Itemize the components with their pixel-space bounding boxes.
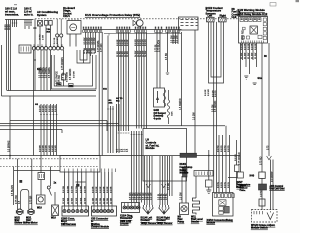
connector X30 tick 1 [39, 174, 41, 178]
svg-text:0.5 BR: 0.5 BR [252, 43, 254, 50]
motor M2/1 circle [28, 209, 34, 215]
svg-text:0.5 BL: 0.5 BL [218, 181, 220, 188]
wire: battery drop 2 [110, 106, 112, 153]
MAS pin box 1 [240, 18, 243, 22]
terminal tick v2-1 [24, 22, 26, 24]
connector strip pin box 12 [124, 30, 126, 33]
relay K1 pin 3 [74, 19, 76, 21]
svg-text:0.75 RD: 0.75 RD [101, 43, 103, 52]
MAS right strip cell 3 [263, 27, 266, 30]
connector X26/3 outline [62, 206, 89, 216]
wire: blower feed 2 [31, 159, 33, 210]
connector X35 pin 3 stub [100, 206, 102, 209]
LH feed tick 5 [128, 132, 130, 134]
band crossing tick 5 [53, 114, 55, 116]
svg-text:K40: K40 [250, 175, 255, 178]
connector X35 pin 5 dot [108, 210, 109, 211]
wire: strip drop c4 [143, 32, 145, 128]
wire: N16 output drop [194, 30, 196, 153]
svg-text:0.75 BL/GN: 0.75 BL/GN [159, 40, 161, 52]
module box pin tick r2 [93, 169, 95, 173]
connector X35 pin 6 dot [111, 210, 112, 211]
X4/10 internal cell 2 [224, 206, 229, 213]
X4/10 pin box 5 [228, 194, 231, 198]
wire: MAS pin drop long x262 [261, 43, 263, 172]
wire: K1 load path upper [63, 50, 65, 74]
bus connector bar X27 [180, 153, 197, 157]
resistor R16 body [62, 74, 66, 80]
MAS right strip cell 2 [263, 23, 266, 26]
band crossing tick 3 [46, 114, 48, 116]
connector X11 pin 3 stub [131, 203, 133, 206]
wire: sensor loop outer [209, 22, 224, 83]
ground sym e1 bar1 [166, 72, 169, 74]
svg-text:W10: W10 [37, 208, 42, 210]
wire: battery drop 1 [107, 36, 109, 154]
svg-text:0.5 SW/BL: 0.5 SW/BL [40, 66, 42, 78]
connector X26/3 pin 5 stub [81, 206, 83, 209]
fuel pump M3 housing [180, 203, 189, 215]
wire: band crossing drop 2 [43, 104, 45, 156]
connector strip pin cap 4 [90, 27, 91, 29]
band crossing tick 6 [56, 114, 58, 116]
plug B11/4 right tip [163, 212, 166, 215]
connector circle row pin 6 [52, 47, 55, 50]
connector X26/3 pin 1 dot [64, 210, 65, 211]
plug B11/4 left funnel [143, 208, 154, 214]
wire: long drop to node w102 [101, 32, 103, 156]
wire: X4/10 feed 3 [225, 135, 227, 193]
module box pin tick 5 [81, 169, 83, 173]
octane switch V plug [267, 213, 274, 220]
wire: band crossing drop 4 [49, 104, 51, 156]
svg-text:0.75 BL: 0.75 BL [156, 43, 158, 52]
wire: S31 to connector row [39, 26, 41, 47]
svg-text:0.5 SW: 0.5 SW [67, 186, 69, 193]
MAS right strip cell 5 [263, 36, 266, 39]
wire: dashed aux 2 [0, 166, 98, 168]
MAS right strip cell 1 [263, 18, 266, 21]
svg-text:0.5 RD: 0.5 RD [215, 90, 217, 97]
plug B11/4 right pin tick 4 [168, 205, 170, 208]
relay K1 pin 2 [71, 19, 73, 21]
wire: LH out B4 [167, 156, 169, 205]
connector X35 pin 2 stub [97, 206, 99, 209]
wire: LH out B2 [162, 156, 164, 205]
connector X35 pin 5 stub [107, 206, 109, 209]
wire: small U centre drop [83, 50, 85, 63]
aux fan relay body [37, 195, 46, 204]
wire: MAS pin drop 4 [252, 43, 254, 60]
svg-text:0.5 RD: 0.5 RD [228, 145, 230, 152]
svg-text:W11/3 Octane Adjust.Module Sw: W11/3 Octane Adjust.Module Switch [251, 224, 276, 230]
connector block X26 tick 1 [20, 47, 22, 52]
connector strip pin box 15 [135, 30, 137, 33]
connector X35 pin 2 dot [97, 210, 98, 211]
terminal tick 1 [12, 22, 14, 24]
wire: K1 pin 87 drop [75, 34, 77, 47]
svg-text:0.5 GN: 0.5 GN [212, 104, 214, 112]
connector X26/3 pin 3 [72, 210, 75, 213]
note: page ref mark [270, 3, 276, 7]
connector bar X27b tick 1 [195, 172, 197, 176]
relay K1 outline [67, 21, 81, 35]
connector strip pin cap 12 [124, 27, 125, 29]
wire: MAS pin drop 2 [245, 43, 247, 67]
svg-text:0.5 BR/WS: 0.5 BR/WS [9, 140, 11, 152]
connector X11 pin 5 [137, 206, 140, 209]
wire: blower feed 1 [17, 159, 19, 210]
plug B11/4 left inner V [146, 208, 151, 213]
module box pin tick 4 [76, 169, 78, 173]
connector strip pin cap 17 [140, 27, 141, 29]
connector strip pin box 5 [93, 30, 95, 33]
relay module N16 contact row y22.5 [181, 22, 198, 24]
connector circle row pin 4 [44, 47, 47, 50]
connector strip pin box 24 [168, 30, 170, 33]
svg-text:0.5 GN: 0.5 GN [40, 105, 42, 112]
plug B11/4 right pin tick 3 [165, 205, 167, 208]
module box pin tick 3 [72, 169, 74, 173]
octane switch pin 4 [261, 211, 263, 214]
connector strip pin box 25 [171, 30, 173, 33]
connector X35 pin 4 dot [104, 210, 105, 211]
relay K1 coil circle [70, 24, 77, 31]
wire: top-left feed bus [5, 19, 34, 21]
MAS internal relay box [250, 26, 257, 34]
X4/10 pin box 3 [221, 194, 224, 198]
wire: LH feed drop 5 [141, 131, 143, 203]
fuel pump M3 circle [181, 206, 187, 212]
wire: dashed A/C enclosure top rail [35, 18, 239, 20]
LH feed tick 3 [123, 132, 125, 134]
connector X11 pin 2 stub [127, 203, 129, 206]
svg-text:G3/2O2 Sensor(heated)4-pole: G3/2O2 Sensor(heated)4-pole [154, 109, 167, 120]
wire: X4/10 feed 1 [218, 135, 220, 193]
svg-text:0.5 BR: 0.5 BR [127, 39, 129, 46]
motor M2/1 side tick L [27, 210, 29, 214]
fuel pump M3 X [182, 207, 186, 211]
connector block X26 tick 3 [25, 47, 27, 52]
connector bar X27b tick 6 [210, 172, 212, 176]
plug B11/4 left tip [147, 212, 150, 215]
svg-text:0.5 GE/SW: 0.5 GE/SW [272, 172, 274, 182]
wire: drop 3 from top-left bus to line F1 [10, 20, 12, 91]
X4/10 internal relay [219, 200, 226, 206]
svg-text:On-BoardDiagn.SocketX11/4: On-BoardDiagn.SocketX11/4 [63, 6, 75, 18]
connector circle row stub 2 [37, 44, 39, 46]
wire: LH out A1 [144, 156, 146, 205]
svg-text:0.5 RD: 0.5 RD [221, 145, 223, 152]
fuse F34 element [261, 199, 263, 206]
connector X26/3 pin 1 [63, 210, 66, 213]
wire: LH feed drop 1 [131, 131, 133, 203]
connector X26/3 pin 2 dot [68, 210, 69, 211]
connector strip pin cap 24 [168, 27, 169, 29]
wire: bus band line 3 [0, 125, 225, 127]
svg-text:31 SW: 31 SW [252, 53, 254, 59]
MAS pin num 1 [241, 18, 243, 19]
connector X35 pin 3 dot [101, 210, 102, 211]
svg-text:W11Fuel LevelSender: W11Fuel LevelSender [191, 216, 203, 224]
wire: drop 1 from top-left bus to line F1 [6, 20, 8, 91]
wire: LH out A3 [149, 156, 151, 205]
svg-text:12 GN: 12 GN [111, 197, 113, 204]
svg-text:2x: 2x [54, 182, 57, 185]
svg-text:0.75 RD: 0.75 RD [261, 156, 263, 165]
connector strip pin cap 26 [173, 27, 174, 29]
svg-text:0.5 GN: 0.5 GN [235, 154, 237, 161]
MAS interior mark 4 [258, 35, 262, 38]
connector X11 pin 1 [123, 206, 126, 209]
fuse TSB body [69, 84, 74, 87]
plug B11/4 left pin tick 1 [143, 205, 145, 208]
MAS pin num 2 [245, 18, 247, 19]
MAS bottom pin 8 [256, 41, 258, 44]
svg-text:4 SW: 4 SW [42, 35, 44, 40]
relay K1 pin 4 [77, 19, 79, 21]
connector X11 pin 1 dot [124, 207, 125, 208]
connector circle row pin 1 [32, 47, 35, 50]
svg-text:0.5 SW/BL: 0.5 SW/BL [46, 66, 48, 78]
wire: short drop 3 from top-left bus [16, 20, 18, 28]
MAS pin num 3 [250, 18, 252, 19]
relay module N16 contact row y25.5 [181, 25, 198, 27]
module box pin tick r5 [104, 169, 106, 173]
svg-text:0.5 BL/WS: 0.5 BL/WS [12, 185, 14, 196]
wire: box2 feed 1 [93, 172, 95, 206]
svg-text:0.5 BR: 0.5 BR [111, 186, 113, 193]
wire: OVP strip drop a3 [90, 32, 92, 56]
connector strip pin box 10 [119, 30, 121, 33]
MAS bottom pin 1 [241, 41, 243, 44]
svg-text:B11/4 RightCoolantTemp. Sensor: B11/4 RightCoolantTemp. Sensor [157, 217, 173, 225]
octane switch R17 dashed box [252, 210, 278, 223]
plug B11/4 left pin tick 3 [149, 205, 151, 208]
wire: suppressor lower stub [168, 118, 170, 124]
wire: long drop to node w99 [98, 32, 100, 156]
svg-text:0.5 BR: 0.5 BR [241, 43, 243, 50]
svg-text:11 WS: 11 WS [76, 197, 78, 204]
O2 sensor heater element [157, 91, 159, 103]
wire: box2 feed 2 [97, 172, 99, 206]
connector X26/3 pin 2 [67, 210, 70, 213]
svg-text:X35 ConnectortoIgnitionControl: X35 ConnectortoIgnitionControl Module [91, 218, 110, 229]
wire: B7 drop [45, 25, 47, 46]
connector strip pin cap 15 [135, 27, 136, 29]
connector strip pin box 9 [116, 30, 118, 33]
connector W5 hatch [259, 184, 267, 190]
connector X35 pin 3 [100, 210, 103, 213]
connector X26/3 pin 3 dot [72, 210, 73, 211]
motor M2/2 circle [17, 209, 23, 215]
connector strip pin cap 23 [166, 27, 167, 29]
wire: bus F2 [2, 95, 97, 97]
relay module N16 outline [179, 17, 199, 30]
relay module N16 contact row y19.5 [181, 19, 198, 21]
wire: bus band line 4 corner [61, 130, 63, 134]
wire: W5 lower 2 [272, 160, 274, 211]
octane switch pin 3 [259, 211, 261, 214]
wire: big loop outer [52, 55, 97, 89]
svg-text:TD: TD [120, 98, 123, 100]
svg-text:N16/1Fuel PumpRelayModule: N16/1Fuel PumpRelayModule [180, 163, 193, 175]
wire: drop 3 from variant-2 bus [28, 20, 30, 30]
connector bar X27b [194, 171, 213, 177]
connector strip pin box 13 [126, 30, 128, 33]
connector strip pin box 18 [142, 30, 144, 33]
svg-text:0.5 SW/BL: 0.5 SW/BL [43, 66, 45, 78]
note: asterisk marks [14, 4, 17, 5]
plug B11/4 right inner V [162, 208, 167, 213]
plug arrow x269 [267, 156, 272, 160]
aux fan relay circle [38, 197, 43, 202]
motor M2/1 core [29, 211, 33, 213]
wire: box1 feed 2 [68, 172, 70, 206]
LH feed tick2 4 [138, 134, 140, 136]
connector strip pin box 1 [83, 30, 85, 33]
connector strip pin cap 5 [93, 27, 94, 29]
wire: dashed aux 1 [0, 158, 98, 160]
connector circle row pin 2 [36, 47, 39, 50]
connector block X26 tick 4 [28, 47, 30, 52]
svg-text:Right: Right [220, 14, 227, 17]
sensor B11/2 right housing [219, 17, 227, 22]
junction dot on K1a feed [34, 59, 36, 61]
connector strip pin box 11 [121, 30, 123, 33]
svg-text:11 WS: 11 WS [80, 197, 82, 204]
module box pin tick 1 [64, 169, 66, 173]
wire: diode block drop [208, 187, 210, 190]
plug B11/4 left pin tick 2 [146, 205, 148, 208]
relay K1 coil bar [71, 26, 75, 28]
X4/10 internal relay mark [220, 201, 226, 205]
horn symbol H3 cone [133, 20, 137, 25]
wire: band crossing drop 5 [53, 104, 55, 156]
octane switch pin 2 [256, 211, 258, 214]
connector strip pin box 14 [129, 30, 131, 33]
wire: circle-row drop 3 [46, 50, 48, 91]
module box pin tick r8 [115, 169, 117, 173]
connector strip pin box 19 [145, 30, 147, 33]
connector strip pin cap 20 [155, 27, 156, 29]
octane pin extra [269, 211, 271, 213]
connector circle row pin 5 [49, 47, 52, 50]
wire: motor link loop [21, 190, 29, 210]
sensor B8 body [49, 21, 52, 26]
connector X35 pin 1 [93, 210, 96, 213]
module box pin tick r6 [107, 169, 109, 173]
wire: LH out A2 [146, 156, 148, 205]
connector X11 pin 4 stub [134, 203, 136, 206]
connector strip pin cap 19 [145, 27, 146, 29]
connector X26/3 pin 2 stub [68, 206, 70, 209]
wire: sender feed [195, 176, 197, 198]
switch S31 housing [38, 21, 43, 27]
connector X11 pin 4 dot [134, 207, 135, 208]
svg-text:0.5 BL: 0.5 BL [225, 181, 227, 188]
connector strip pin cap 3 [88, 27, 89, 29]
wire: bus band line 3 corner drop [225, 126, 227, 135]
battery drop tick 1 [107, 108, 109, 110]
MAS internal relay X [251, 27, 257, 33]
svg-text:0.5 BL: 0.5 BL [166, 193, 168, 200]
svg-text:0.75: 0.75 [268, 145, 270, 150]
wire: left vertical v13 [13, 167, 15, 206]
connector strip pin cap 28 [178, 27, 179, 29]
connector strip pin box 4 [90, 30, 92, 33]
wire: circle-row drop 1 [40, 50, 42, 91]
module box pin tick r1 [90, 169, 92, 173]
connector strip pin box 17 [140, 30, 142, 33]
connector strip pin box 21 [158, 30, 160, 33]
wire: X30 upper [40, 156, 42, 173]
connector strip pin cap 9 [116, 27, 117, 29]
connector X30 tick 3 [42, 174, 44, 178]
wire: OVP strip drop a4 [92, 32, 94, 50]
note: page corner mark [296, 0, 300, 2]
wire: X30 lower [40, 180, 42, 196]
MAS module K1/2 outline [239, 17, 268, 44]
svg-text:31 SW: 31 SW [241, 53, 243, 59]
wire: strip drop c3 [141, 32, 143, 128]
module box pin tick 2 [68, 169, 70, 173]
svg-text:LHControlsot. Fuel Inj.Module: LHControlsot. Fuel Inj.Module [146, 138, 160, 151]
svg-text:0.5 BL: 0.5 BL [228, 181, 230, 188]
wire: K1 load path lower [63, 80, 65, 86]
svg-text:W10: W10 [51, 218, 56, 220]
wire: strip drop c1 [136, 32, 138, 128]
wire: box2 feed 4 [104, 172, 106, 206]
X4/10 pin box 2 [218, 194, 221, 198]
MAS interior mark 3 [247, 36, 250, 39]
connector X35 pin 1 dot [93, 210, 94, 211]
svg-text:14 SW: 14 SW [145, 51, 147, 57]
terminal tick v2-4 [30, 22, 32, 24]
svg-text:190 E 2.6w/ man.transmiss.: 190 E 2.6w/ man.transmiss. [4, 7, 19, 17]
svg-text:K1/1 Overvoltage Protection: K1/1 Overvoltage Protection Relay (87E) [85, 13, 140, 17]
svg-text:12 GN: 12 GN [107, 197, 109, 204]
band crossing tick 2 [43, 114, 45, 116]
wire: OVP strip drop a5 [95, 32, 97, 53]
wire: temp switch feed [236, 140, 238, 165]
wire: lower solid stub [14, 170, 60, 172]
wire: K40 stub left [228, 177, 237, 179]
connector strip pin cap 10 [119, 27, 120, 29]
MAS pin num 5 [258, 18, 260, 19]
LH feed tick 1 [118, 132, 120, 134]
MAS bottom pin 11 [263, 41, 265, 44]
LH feed tick2 3 [136, 134, 138, 136]
svg-text:G3/1: G3/1 [172, 111, 174, 116]
plug arrow B [162, 184, 166, 188]
wire: main bus y155 [0, 155, 240, 157]
O2 sensor heater G3/2 box [154, 88, 165, 107]
battery drop tick 3 [112, 108, 114, 110]
wire: box2 feed 3 [100, 172, 102, 206]
junction square [19, 180, 22, 183]
LH module connector hatch [183, 167, 188, 177]
connector X26/3 pin 5 [80, 210, 83, 213]
motor M2/2 core [18, 211, 22, 213]
connector strip pin box 22 [161, 30, 163, 33]
wire: big loop inner [54, 55, 92, 86]
svg-text:30: 30 [264, 55, 267, 58]
svg-text:0.5 BR: 0.5 BR [255, 43, 257, 50]
MAS pin box 3 [249, 18, 252, 22]
wire: strip drop b4 [125, 32, 127, 131]
svg-text:TSB: TSB [69, 85, 73, 87]
